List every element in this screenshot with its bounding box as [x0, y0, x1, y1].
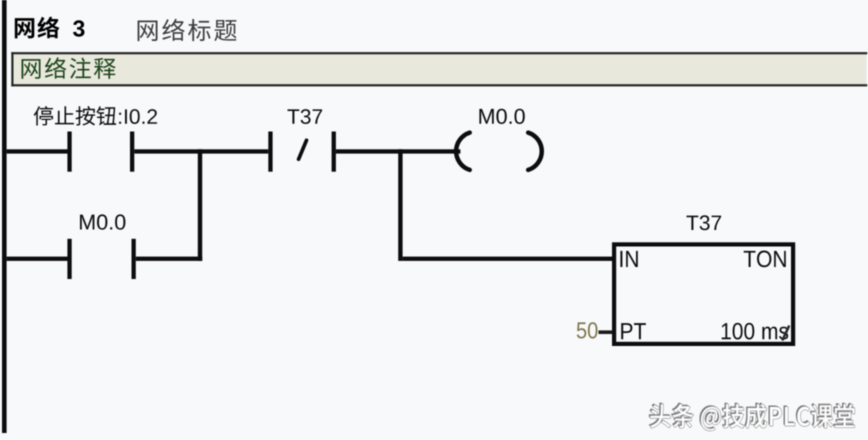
contact label T37 — [288, 109, 323, 124]
branch junction vertical 2 (to timer rung) — [398, 149, 402, 261]
comment text 网络注释 — [22, 57, 116, 79]
contact M0.0 right bar — [132, 239, 136, 279]
branch junction vertical 1 (to rung2) — [198, 149, 202, 261]
PT operand tick — [599, 330, 613, 334]
wire rung2: rail to contact M0.0 — [7, 257, 68, 261]
wire rung1: contact I0.2 to contact T37 — [134, 149, 268, 153]
contact label 停止按钮 — [34, 106, 116, 125]
coil M0.0 left arc — [456, 133, 470, 170]
contact T37 left bar — [268, 132, 272, 172]
contact label M0.0 — [80, 214, 125, 229]
contact M0.0 left bar — [67, 239, 71, 279]
network number 3 — [73, 20, 85, 36]
timer pin IN — [620, 251, 637, 267]
comment box — [13, 53, 867, 85]
network header label 网络 — [15, 17, 60, 39]
contact T37 NC slash — [299, 140, 307, 159]
wire rung1: contact T37 to coil — [336, 149, 461, 153]
wire rung2: contact M0.0 to branch junction 1 — [136, 257, 202, 261]
PT operand 50 — [577, 322, 598, 338]
network title 网络标题 — [138, 19, 237, 41]
contact I0.2 right bar — [130, 132, 134, 172]
watermark shadow 头条@技成PLC课堂 — [649, 403, 854, 430]
wire rung1: rail to contact I0.2 — [7, 149, 68, 153]
contact address :I0.2 — [119, 109, 157, 124]
timer box label T37 — [687, 215, 722, 230]
artifact slash over s in ms — [783, 327, 789, 340]
left power rail — [2, 0, 7, 433]
wire timer rung: branch junction 2 to timer box — [403, 257, 612, 261]
coil label M0.0 — [479, 109, 524, 124]
contact T37 right bar — [332, 132, 336, 172]
watermark text 头条@技成PLC课堂 — [650, 404, 855, 431]
coil M0.0 right arc — [528, 133, 542, 170]
timer pin PT — [621, 323, 646, 339]
timer box T37 outline — [614, 244, 793, 344]
timer type TON — [744, 251, 786, 268]
contact I0.2 left bar — [67, 132, 71, 172]
timer base 100 ms — [722, 323, 789, 340]
